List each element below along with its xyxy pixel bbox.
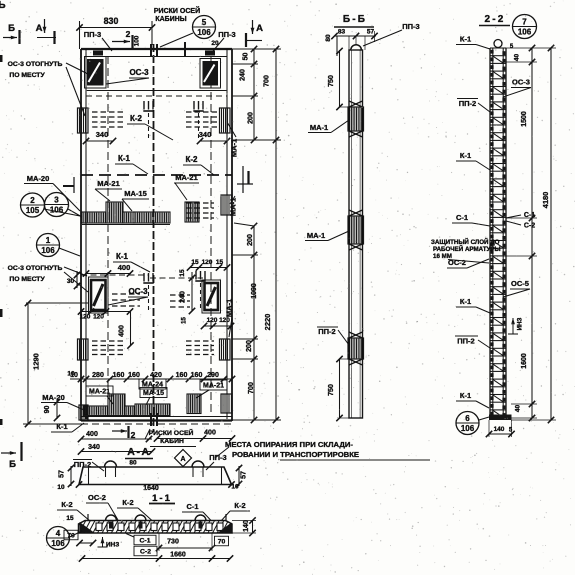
svg-text:90: 90 [44,406,51,414]
svg-text:7: 7 [522,17,527,26]
svg-text:ПП-2: ПП-2 [318,327,335,336]
svg-text:3: 3 [54,195,59,204]
svg-text:МА-21: МА-21 [97,179,120,188]
svg-text:ПП-3: ПП-3 [209,453,226,462]
svg-text:ОС-3: ОС-3 [128,287,148,296]
svg-text:К-2: К-2 [122,498,133,507]
svg-text:4180: 4180 [541,192,550,209]
svg-text:57: 57 [241,471,248,479]
svg-text:200: 200 [246,340,253,352]
svg-text:1-1: 1-1 [152,493,172,504]
svg-text:МА-21: МА-21 [203,383,224,390]
svg-text:К-1: К-1 [116,252,129,261]
svg-text:ПП-2: ПП-2 [457,337,474,346]
svg-text:2220: 2220 [263,314,272,331]
svg-text:ПО МЕСТУ: ПО МЕСТУ [9,72,45,79]
svg-text:106: 106 [41,246,55,255]
svg-text:А: А [256,23,263,34]
svg-text:ПО МЕСТУ: ПО МЕСТУ [9,276,45,283]
svg-text:К-1: К-1 [56,422,67,431]
svg-text:40: 40 [515,405,522,413]
svg-text:С-2: С-2 [140,549,151,556]
svg-text:К-1: К-1 [460,35,471,44]
svg-text:106: 106 [518,28,532,37]
svg-text:400: 400 [119,325,126,337]
svg-text:10: 10 [67,371,75,378]
svg-text:70: 70 [218,539,226,546]
svg-text:МА-1: МА-1 [225,299,234,317]
svg-text:Б: Б [8,23,15,34]
svg-text:МА-15: МА-15 [143,390,164,397]
svg-text:МА-1: МА-1 [310,123,328,132]
svg-text:4: 4 [56,529,61,538]
svg-text:100: 100 [134,35,141,46]
svg-text:80: 80 [325,34,332,42]
svg-text:А: А [180,456,185,463]
svg-text:750: 750 [328,75,335,87]
svg-text:83: 83 [338,29,346,36]
svg-text:160: 160 [113,372,125,379]
svg-text:106: 106 [461,424,475,433]
svg-text:РОВАНИИ И ТРАНСПОРТИРОВКЕ: РОВАНИИ И ТРАНСПОРТИРОВКЕ [232,450,359,459]
svg-text:РИСКИ ОСЕЙ: РИСКИ ОСЕЙ [149,428,194,437]
svg-text:МА-1: МА-1 [307,231,325,240]
svg-text:2: 2 [30,196,35,205]
svg-text:200: 200 [248,112,255,124]
svg-text:Б: Б [9,459,16,470]
svg-text:1290: 1290 [32,353,41,370]
svg-text:280: 280 [92,372,104,379]
svg-text:240: 240 [180,291,187,303]
svg-text:1500: 1500 [521,111,528,127]
svg-text:С-1: С-1 [186,502,198,511]
svg-text:106: 106 [197,28,211,37]
svg-text:80: 80 [129,460,137,467]
svg-text:140: 140 [494,426,505,433]
svg-text:ОС-2: ОС-2 [88,493,106,502]
svg-text:2: 2 [126,29,131,39]
svg-text:К-1: К-1 [460,151,471,160]
svg-text:290: 290 [207,372,219,379]
svg-text:К-2: К-2 [130,114,143,123]
svg-text:ПП-3: ПП-3 [218,30,235,39]
svg-text:ОС-5: ОС-5 [511,279,529,288]
svg-text:120: 120 [80,314,91,321]
svg-text:10: 10 [57,484,65,491]
svg-text:МА-1: МА-1 [230,139,239,157]
svg-text:С-2: С-2 [524,223,535,230]
svg-text:1: 1 [46,236,51,245]
svg-text:2-2: 2-2 [484,14,505,25]
svg-text:ОС-3 ОТОГНУТЬ: ОС-3 ОТОГНУТЬ [8,265,63,272]
svg-text:ОС-3: ОС-3 [129,68,149,77]
svg-text:А: А [36,23,43,34]
svg-text:140: 140 [243,520,250,532]
svg-text:С-1: С-1 [140,538,151,545]
svg-text:105: 105 [26,206,40,215]
svg-text:МА-1: МА-1 [229,198,238,216]
svg-text:МА-15: МА-15 [124,189,147,198]
svg-text:6: 6 [465,414,470,423]
svg-text:РАБОЧЕЙ АРМАТУРЫ: РАБОЧЕЙ АРМАТУРЫ [433,245,501,253]
svg-text:ПП-3: ПП-3 [84,30,101,39]
svg-text:К-1: К-1 [460,297,471,306]
svg-text:Ь: Ь [0,0,6,11]
svg-text:ОС-3: ОС-3 [512,78,530,87]
svg-text:ИНЗ: ИНЗ [517,317,524,330]
svg-text:К-1: К-1 [460,391,471,400]
svg-text:МЕСТА ОПИРАНИЯ ПРИ СКЛАДИ-: МЕСТА ОПИРАНИЯ ПРИ СКЛАДИ- [225,440,353,449]
svg-text:240: 240 [240,69,247,81]
svg-text:1090: 1090 [251,283,258,299]
svg-text:2: 2 [131,430,136,440]
svg-text:160: 160 [176,372,188,379]
svg-text:ЗАЩИТНЫЙ СЛОЙ ДО: ЗАЩИТНЫЙ СЛОЙ ДО [431,238,500,246]
svg-text:830: 830 [104,16,119,26]
svg-text:340: 340 [88,444,100,451]
svg-text:15: 15 [179,269,186,277]
svg-text:120: 120 [93,314,104,321]
svg-text:Б-Б: Б-Б [343,14,367,25]
svg-text:1660: 1660 [170,552,186,559]
svg-text:ПП-2: ПП-2 [459,99,476,108]
svg-text:57: 57 [367,29,375,36]
svg-text:750: 750 [328,384,335,396]
svg-text:200: 200 [247,234,254,246]
svg-text:106: 106 [51,539,65,548]
svg-text:730: 730 [167,539,179,546]
svg-text:15: 15 [66,515,74,522]
svg-text:340: 340 [199,130,212,139]
svg-text:МА-20: МА-20 [42,393,65,402]
svg-text:МА-21: МА-21 [175,173,198,182]
svg-text:С-1: С-1 [456,213,468,222]
svg-text:К-2: К-2 [186,155,199,164]
svg-text:ОС-3 ОТОГНУТЬ: ОС-3 ОТОГНУТЬ [8,61,63,68]
svg-text:ПП-3: ПП-3 [402,22,419,31]
svg-text:ИНЗ: ИНЗ [106,542,119,549]
svg-text:10: 10 [231,484,239,491]
svg-text:340: 340 [96,130,109,139]
svg-text:МА-20: МА-20 [27,174,50,183]
svg-text:К-1: К-1 [118,154,131,163]
svg-text:50: 50 [243,53,250,61]
svg-text:57: 57 [59,470,66,478]
svg-text:РИСКИ ОСЕЙ: РИСКИ ОСЕЙ [154,6,200,15]
svg-text:5: 5 [202,18,207,27]
svg-text:КАБИНЫ: КАБИНЫ [155,16,186,23]
svg-text:1640: 1640 [143,485,159,492]
svg-text:400: 400 [118,263,131,272]
svg-text:400: 400 [86,431,98,438]
svg-text:ОС-2: ОС-2 [448,258,466,267]
svg-text:К-2: К-2 [61,500,72,509]
svg-text:30: 30 [67,278,75,285]
svg-text:160: 160 [128,372,140,379]
svg-text:700: 700 [264,75,271,87]
svg-text:420: 420 [150,372,162,379]
svg-text:40: 40 [514,54,521,62]
svg-text:160: 160 [191,372,203,379]
svg-text:1600: 1600 [521,353,528,369]
